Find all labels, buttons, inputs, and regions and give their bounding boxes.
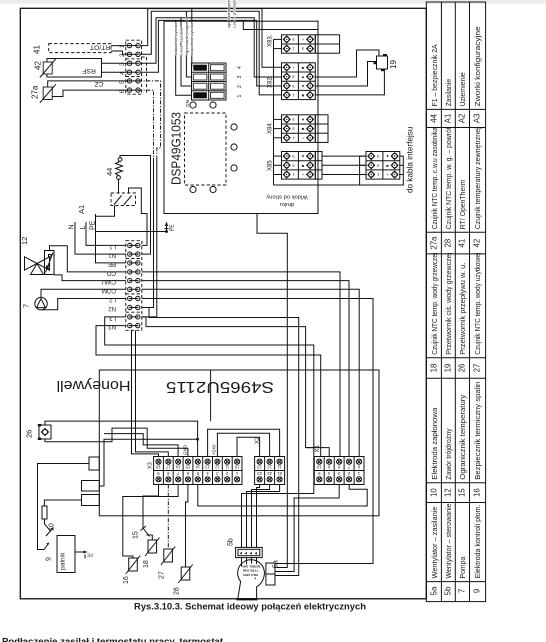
wire L3 feed from above	[142, 158, 157, 317]
connector X84	[268, 115, 316, 143]
pressure transducer 19	[374, 54, 399, 71]
wire terminal2 to X82 row4	[140, 11, 281, 95]
pump 7	[35, 297, 47, 309]
svg-text:3: 3	[237, 76, 243, 79]
wire gnd trace to PCB edge	[243, 20, 318, 29]
svg-text:ON: ON	[185, 100, 190, 107]
display cutout dashed	[185, 113, 227, 185]
wire X3 col1 to 15	[143, 485, 159, 524]
svg-text:MODEL 5kPa: MODEL 5kPa	[241, 564, 260, 568]
svg-text:▼: ▼	[301, 154, 305, 159]
svg-text:Pompa: Pompa	[460, 556, 467, 578]
svg-text:Elektroda zapłonowa: Elektroda zapłonowa	[432, 408, 439, 480]
svg-text:A1: A1	[77, 205, 86, 214]
nested wire to X3 col1	[132, 330, 159, 456]
wire N3 left bundle B4 to X1 pin1	[96, 326, 321, 457]
svg-text:42: 42	[34, 61, 43, 70]
room thermostat RT/OT box 41	[33, 44, 112, 55]
svg-text:7: 7	[458, 589, 467, 593]
svg-text:E: E	[292, 117, 295, 122]
svg-text:E: E	[292, 126, 295, 131]
wire L2 row to fan supply	[142, 299, 373, 564]
legend table grid	[426, 2, 485, 602]
svg-text:Czujnik NTC temp. wody grzewcz: Czujnik NTC temp. wody grzewczej	[432, 252, 439, 354]
svg-text:Wentylator – zasilanie: Wentylator – zasilanie	[432, 506, 439, 578]
svg-text:26: 26	[458, 364, 467, 373]
svg-text:E: E	[292, 163, 295, 168]
burner box palnik	[57, 536, 75, 573]
svg-text:18: 18	[430, 364, 439, 373]
wire L3 left bundle B3 to 5b	[105, 317, 314, 548]
svg-text:1: 1	[237, 95, 243, 98]
svg-text:27a: 27a	[31, 85, 40, 99]
svg-text:12: 12	[214, 464, 219, 469]
svg-text:PE: PE	[108, 261, 116, 267]
wire N2 row bundle B1	[142, 308, 299, 576]
svg-text:CWU: CWU	[102, 278, 116, 284]
svg-text:ustawienie wyrzutu: ustawienie wyrzutu	[174, 23, 178, 55]
wire 26 top to X3 col5	[45, 421, 198, 456]
svg-text:23: 23	[257, 471, 262, 476]
wire COM row to X1 pin5	[142, 289, 359, 456]
svg-text:X83.: X83.	[268, 34, 274, 47]
jumper feed wires	[176, 20, 192, 95]
svg-text:E: E	[377, 163, 380, 168]
wire terminal1 to X82 row1	[140, 9, 281, 68]
burner PE bond	[75, 550, 88, 558]
interface connector shell	[360, 156, 404, 185]
svg-text:Przetwornik przepływu w. u.: Przetwornik przepływu w. u.	[460, 263, 467, 355]
svg-text:15: 15	[185, 464, 190, 469]
svg-text:3: 3	[119, 62, 126, 66]
svg-text:27a: 27a	[430, 236, 439, 250]
svg-text:druku: druku	[280, 201, 295, 207]
svg-text:9: 9	[473, 589, 482, 593]
svg-text:E: E	[302, 46, 305, 51]
wire switch right to L1 row	[129, 188, 148, 245]
svg-text:L2: L2	[109, 296, 116, 302]
spark gap arrows	[46, 527, 54, 536]
PE junction wire and dot	[96, 231, 167, 233]
wire tab3 to ignition resistor	[44, 500, 81, 506]
svg-text:DSP49G1053: DSP49G1053	[169, 112, 184, 185]
svg-text:X82.: X82.	[268, 75, 274, 88]
svg-text:Honeywell: Honeywell	[57, 377, 131, 393]
svg-text:X85: X85	[268, 160, 274, 171]
svg-text:Ogranicznik temperatury: Ogranicznik temperatury	[460, 394, 467, 480]
connector X86	[268, 152, 316, 180]
svg-text:41: 41	[458, 239, 467, 248]
svg-text:Zworki konfiguracyjne: Zworki konfiguracyjne	[475, 26, 482, 106]
valve actuator	[45, 251, 55, 275]
svg-text:17: 17	[165, 464, 170, 469]
svg-text:7: 7	[22, 304, 31, 308]
fuse 44	[116, 158, 123, 180]
svg-text:A1: A1	[444, 114, 453, 124]
wire fuse bottom to switch	[118, 179, 120, 193]
svg-text:RT/OT: RT/OT	[90, 44, 110, 51]
dashed marks right of strip	[142, 56, 147, 58]
svg-text:13: 13	[205, 464, 210, 469]
svg-text:N3: N3	[108, 323, 116, 329]
mains wires to strip	[75, 222, 126, 254]
legend table texts	[432, 26, 482, 578]
wires X86 to interface connector	[322, 156, 366, 174]
wires CZ to terminals 5,6	[48, 81, 130, 87]
connector X82	[268, 63, 316, 100]
svg-text:Czujnik NTC temp. c.w.u zasobn: Czujnik NTC temp. c.w.u zasobnika	[432, 127, 439, 229]
svg-text:Podłączenie zasilał i termosta: Podłączenie zasilał i termostatu pracy, …	[2, 637, 224, 642]
terminal circle pairs rows 1-6	[127, 43, 140, 92]
wire CWU row to X1 pin4	[142, 281, 349, 457]
svg-text:15: 15	[458, 488, 467, 497]
svg-text:ogrzewanie podgrzew: ogrzewanie podgrzew	[185, 18, 189, 55]
wires X82 to 19	[315, 50, 384, 95]
svg-text:+24V: +24V	[212, 443, 217, 455]
svg-text:Widok od strony: Widok od strony	[266, 194, 308, 200]
svg-text:E: E	[292, 74, 295, 79]
svg-text:26: 26	[25, 430, 34, 438]
connector interface connector	[366, 152, 400, 180]
stub wires to PCB vertical	[274, 39, 360, 185]
svg-text:A3: A3	[473, 114, 482, 124]
wire CO row to X1 pin3	[142, 272, 340, 457]
wire 26 bottom nested to X3 col4	[45, 428, 188, 456]
svg-text:44: 44	[105, 168, 114, 176]
svg-text:18: 18	[156, 464, 161, 469]
svg-text:27: 27	[159, 571, 166, 579]
svg-text:4: 4	[119, 71, 126, 75]
Honeywell controller box	[99, 370, 379, 516]
svg-text:16: 16	[123, 576, 130, 584]
svg-text:16: 16	[175, 464, 180, 469]
svg-text:13: 13	[257, 464, 262, 469]
svg-text:E: E	[292, 83, 295, 88]
ignition electrode 10	[42, 506, 47, 519]
wire tab1 to flame electrode 9	[38, 464, 90, 550]
svg-text:5: 5	[119, 80, 126, 84]
svg-text:4: 4	[237, 66, 243, 69]
svg-text:21: 21	[277, 471, 282, 476]
svg-text:28: 28	[174, 587, 181, 595]
stub from box top	[210, 370, 212, 421]
fan control connector 5b	[236, 547, 263, 557]
svg-text:ustawienie wyrzutu: ustawienie wyrzutu	[190, 23, 194, 55]
wires RSF to terminals 3,4	[102, 62, 130, 64]
svg-text:28: 28	[444, 239, 453, 248]
configuration jumper block A3	[192, 63, 227, 100]
svg-text:E: E	[292, 154, 295, 159]
outdoor sensor RSF box 42	[34, 59, 102, 78]
svg-text:c.w.u – przeplywowy: c.w.u – przeplywowy	[233, 0, 237, 28]
low-voltage terminal strip 1-6	[119, 40, 142, 94]
nested wire to X3 col3	[104, 434, 178, 457]
wire RT/OT to terminals 1,2	[111, 45, 130, 47]
connector X2	[255, 436, 285, 485]
svg-text:▼: ▼	[301, 83, 305, 88]
svg-text:12: 12	[20, 237, 29, 245]
svg-text:ogrzewanie grzejnikowe: ogrzewanie grzejnikowe	[227, 0, 231, 28]
box left tabs	[82, 457, 100, 506]
nested wire to X3 col2	[136, 330, 169, 456]
fan 5a body	[236, 560, 264, 599]
svg-text:11: 11	[277, 464, 282, 469]
NTC sensor 18	[145, 538, 160, 557]
svg-text:▲: ▲	[301, 74, 305, 79]
svg-text:12: 12	[267, 464, 272, 469]
svg-text:GND: GND	[183, 444, 188, 455]
wire X3 col7 to X2 pin	[217, 433, 269, 456]
wire PCB ground trace to fan	[257, 214, 287, 568]
svg-text:22: 22	[267, 471, 272, 476]
svg-text:X84: X84	[268, 123, 274, 134]
svg-text:Przetwornik ciś. wody grzewcze: Przetwornik ciś. wody grzewczej	[446, 252, 453, 354]
svg-text:42: 42	[473, 239, 482, 248]
wire tab2 to junction	[99, 439, 197, 486]
svg-text:41: 41	[33, 45, 42, 54]
svg-text:5a: 5a	[430, 586, 439, 595]
svg-text:18: 18	[143, 560, 150, 568]
mains terminal strip	[102, 241, 142, 331]
svg-text:6: 6	[119, 89, 126, 93]
svg-text:X3: X3	[148, 462, 154, 469]
svg-text:15: 15	[133, 531, 140, 539]
svg-text:N2: N2	[108, 305, 116, 311]
dashed wire terminal6 down	[138, 90, 154, 158]
svg-text:12: 12	[444, 488, 453, 497]
svg-text:S4965U2115: S4965U2115	[166, 378, 274, 395]
dashed wire terminal5 down	[138, 81, 161, 158]
svg-text:L3: L3	[109, 315, 116, 321]
svg-text:Wentylator – sterowanie: Wentylator – sterowanie	[446, 503, 453, 578]
NTC sensor 27 dashed feed	[167, 485, 169, 550]
svg-text:PE: PE	[170, 224, 176, 231]
svg-text:N1: N1	[108, 252, 116, 258]
jumper position numbers 1-4	[237, 66, 243, 98]
wire L2 row to pump bottom	[41, 299, 126, 310]
svg-text:▸: ▸	[254, 577, 257, 581]
svg-text:Uziemienie: Uziemienie	[460, 72, 467, 106]
svg-text:44: 44	[430, 113, 439, 122]
wire CO row to valve top	[50, 246, 127, 272]
svg-text:N: N	[69, 224, 76, 229]
svg-text:RT/ OpenTherm: RT/ OpenTherm	[460, 179, 467, 229]
tiny jumper label texts	[174, 0, 237, 55]
svg-text:14: 14	[195, 464, 200, 469]
svg-text:E: E	[377, 154, 380, 159]
wire fuse top to N1 row	[120, 156, 151, 255]
wire L3 row bundle B2 to X1 pin2	[142, 317, 316, 448]
mounting vias	[190, 102, 237, 193]
svg-text:Elektroda kontroli płom.: Elektroda kontroli płom.	[475, 504, 482, 578]
svg-text:19: 19	[444, 364, 453, 373]
connector X1	[314, 444, 364, 484]
svg-text:Czujnik temperatury zewnętrzne: Czujnik temperatury zewnętrznej	[475, 127, 482, 229]
svg-text:10: 10	[316, 464, 321, 469]
svg-text:COM: COM	[102, 287, 116, 293]
fan connector tabs	[266, 563, 275, 585]
wire X3 col5 bottom to X1 pin4 bottom	[198, 485, 367, 507]
svg-text:L1: L1	[109, 243, 116, 249]
DHW sensor CZ 27a	[31, 80, 104, 103]
svg-text:Czujnik NTC temp. wody użytkow: Czujnik NTC temp. wody użytkowej	[475, 252, 482, 354]
svg-text:▼: ▼	[386, 154, 390, 159]
svg-text:Zasilanie: Zasilanie	[446, 79, 453, 107]
wire X3 col6 to X2 pin	[208, 429, 280, 456]
svg-text:TYPE GB8: TYPE GB8	[243, 569, 259, 573]
svg-text:5b: 5b	[228, 538, 235, 546]
svg-text:5b: 5b	[444, 586, 453, 595]
svg-text:RSF: RSF	[82, 67, 96, 74]
connector X83	[268, 34, 316, 53]
svg-text:E: E	[292, 37, 295, 42]
svg-text:Zawór trójdrożny: Zawór trójdrożny	[446, 428, 453, 480]
svg-text:F1 – bezpiecznik 2A: F1 – bezpiecznik 2A	[432, 44, 439, 106]
terminal strip X3	[148, 443, 243, 484]
svg-text:PE: PE	[87, 553, 93, 558]
X84 mating bracket	[315, 115, 328, 143]
wire X3 col9 to X2 pin	[237, 437, 260, 456]
svg-text:27: 27	[473, 364, 482, 373]
svg-text:5a: 5a	[273, 560, 280, 568]
wires X2 to fan control connector 5b	[257, 485, 260, 548]
svg-text:11: 11	[224, 464, 229, 469]
wire X1 pin3 bottom to fan	[275, 485, 339, 572]
svg-text:Czujnik NTC temp. w. g. – powr: Czujnik NTC temp. w. g. – powrót	[446, 127, 453, 229]
X86 mating bracket	[315, 152, 322, 180]
svg-text:16: 16	[473, 488, 482, 497]
svg-text:19: 19	[389, 60, 398, 69]
flow transducer 26	[25, 424, 52, 440]
svg-text:c.w.u – zasobnik: c.w.u – zasobnik	[179, 27, 183, 55]
svg-text:palnik: palnik	[60, 552, 67, 570]
drawing frame	[20, 8, 426, 599]
temperature limiter 15	[141, 523, 150, 537]
svg-text:▼: ▼	[301, 117, 305, 122]
svg-text:CO: CO	[107, 270, 116, 276]
svg-text:2: 2	[119, 53, 126, 57]
wire COM row to pump top	[41, 289, 126, 297]
svg-text:50Hz 230V: 50Hz 230V	[242, 573, 258, 577]
svg-text:X1: X1	[315, 444, 321, 452]
NTC sensor 28	[186, 485, 188, 568]
svg-text:1: 1	[119, 44, 126, 48]
wire CWU row to valve side	[54, 275, 126, 281]
wire terminal3 to X82 row2	[140, 18, 281, 77]
A1 control unit switch	[111, 193, 136, 206]
X83 mating bracket	[315, 35, 339, 53]
svg-text:do kabla interfejsu: do kabla interfejsu	[406, 126, 415, 193]
svg-text:A2: A2	[458, 114, 467, 124]
wire terminal4 lane to X82 row3	[140, 20, 281, 86]
PE chassis arrow	[165, 222, 169, 232]
svg-text:Bezpiecznik termiczny spalin: Bezpiecznik termiczny spalin	[475, 382, 482, 480]
svg-text:10: 10	[430, 488, 439, 497]
svg-text:9: 9	[46, 557, 53, 561]
flue thermal fuse 16	[123, 485, 178, 559]
wire N2 feed from above	[142, 158, 154, 308]
wire switch left contact down to PE	[96, 206, 115, 217]
svg-text:2: 2	[237, 85, 243, 88]
three-way valve 12	[25, 257, 50, 275]
svg-text:10: 10	[234, 464, 239, 469]
svg-text:Rys.3.10.3. Schemat ideowy poł: Rys.3.10.3. Schemat ideowy połączeń elek…	[134, 601, 366, 612]
